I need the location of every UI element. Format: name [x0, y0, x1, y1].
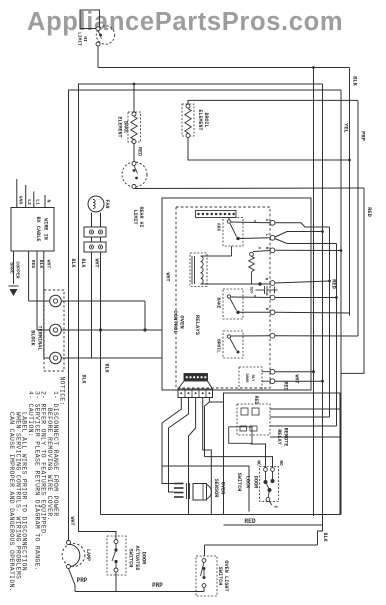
svg-text:OVEN: OVEN [220, 482, 226, 494]
svg-text:LIMIT: LIMIT [132, 209, 138, 224]
svg-text:RLY: RLY [250, 375, 254, 383]
svg-text:ELEMENT: ELEMENT [117, 116, 123, 137]
svg-text:BLK: BLK [104, 363, 110, 372]
switch contacts HI LIMIT [96, 27, 100, 31]
wire bottom horizontal [75, 591, 204, 593]
terminal L [270, 235, 275, 240]
sensor compartment divider [162, 466, 249, 512]
rly terminals [270, 369, 275, 374]
svg-text:0Z0: 0Z0 [249, 287, 253, 295]
door lock switch NC chain [264, 468, 268, 472]
fan connector 2 [84, 242, 106, 252]
supply wires below box [43, 251, 45, 358]
wire cell5 to module box [209, 398, 223, 403]
wire RED vertical x=364 from rear limit line [341, 188, 364, 373]
svg-text:NC: NC [256, 460, 261, 466]
svg-text:AUX: AUX [216, 223, 222, 232]
wire broil bottom to L2 bus [188, 138, 350, 161]
svg-text:RED: RED [366, 207, 372, 217]
wire vertical x=313.5 from bus1 [313, 68, 315, 517]
svg-text:TERMINAL: TERMINAL [37, 326, 43, 351]
fan leads [91, 213, 93, 228]
terminal 2 [50, 324, 62, 336]
wire bus1 BLK horizontal y=67.5 [98, 67, 350, 69]
oven control top connector strip [196, 211, 237, 218]
transformer DLB coil dashed box [190, 253, 207, 287]
wire vertical x=329.5 from aux A wire [329, 227, 331, 417]
junction box WIRE IN BX CABLE [11, 208, 54, 252]
resistor H branch [250, 252, 254, 256]
oven light switch dashed box [196, 556, 217, 596]
svg-text:C: C [273, 506, 278, 509]
wire y=545 from BLK jog [205, 544, 318, 546]
oven sensor probe [193, 484, 207, 501]
svg-text:LAMP: LAMP [85, 549, 91, 561]
wire feed to NO contact [205, 457, 273, 468]
svg-text:CAN CAUSE IMPROPER AND DANGERO: CAN CAUSE IMPROPER AND DANGEROUS OPERATI… [8, 391, 15, 592]
svg-text:RED: RED [30, 260, 36, 269]
svg-text:RED: RED [283, 381, 289, 390]
lamp bottom wire [69, 569, 76, 592]
svg-text:BROIL: BROIL [216, 339, 222, 353]
wire broil feed y=100.4 [188, 100, 358, 106]
svg-text:BX CABLE: BX CABLE [35, 217, 41, 242]
svg-text:WHT: WHT [69, 516, 75, 525]
svg-text:RED: RED [253, 395, 259, 404]
broil element terminals and resistor [186, 104, 190, 108]
remote relay dashed box [237, 404, 270, 435]
transformer leads [201, 255, 232, 257]
wire cell3 down to red band [189, 398, 196, 515]
oven control bottom connector strip [184, 374, 208, 382]
svg-text:WHT: WHT [294, 374, 300, 383]
svg-text:ELEMENT: ELEMENT [197, 109, 203, 130]
svg-text:YEL: YEL [342, 123, 348, 133]
svg-text:COPPER: COPPER [15, 261, 21, 278]
wire long horizontal y=188 to RED bus [134, 187, 364, 190]
terminal N [270, 281, 275, 286]
wire cell1 to oven sensor [162, 398, 181, 484]
fan connector 1 [84, 227, 106, 237]
wire broil to PRP bus [275, 335, 358, 337]
terminal H [270, 248, 275, 253]
supply leads above wire-in box [16, 179, 18, 207]
wire cell2 to oven sensor [169, 398, 189, 493]
svg-text:RELAYS: RELAYS [194, 315, 201, 336]
svg-text:BLK: BLK [38, 260, 44, 269]
terminal broil [270, 333, 275, 338]
connector flare [178, 381, 213, 398]
svg-text:RED: RED [331, 279, 337, 289]
svg-text:BARE: BARE [9, 262, 15, 274]
wire YEL vertical x=341 [340, 90, 342, 515]
wire bake to rear hi limit [133, 144, 135, 162]
wire PRP vertical x=358 from broil feed [357, 100, 359, 336]
thermostat HI LIMIT box [80, 10, 100, 29]
svg-text:SENSOR: SENSOR [213, 479, 219, 499]
svg-text:BLK: BLK [352, 76, 358, 86]
svg-text:PRP: PRP [152, 582, 163, 589]
svg-text:BLK: BLK [322, 532, 328, 541]
svg-text:AppliancePartsPros.com: AppliancePartsPros.com [27, 8, 343, 36]
wire terminal L fork upper [275, 232, 323, 238]
wires from supply to terminals [29, 300, 50, 302]
wire rly to bus b [275, 380, 323, 382]
oven lamp dashed circle [62, 544, 85, 567]
wire vertical x=336.5 from aux L wire [336, 244, 338, 427]
wire bus2 corner at (78.5,84) [79, 84, 323, 542]
wire NC chain up to remote relay [251, 443, 266, 468]
svg-text:ACTUATED: ACTUATED [134, 546, 140, 571]
door actuated switch dashed box [107, 536, 126, 575]
oven control inner dashed box [176, 207, 270, 388]
wire rly to bus a [275, 371, 314, 373]
remote relay wires right [270, 408, 340, 410]
oven control outer box [162, 198, 311, 390]
ground symbol bare copper [9, 285, 19, 287]
wire vertical x=322.5 from bus2 down to jog [322, 84, 324, 525]
svg-text:RED: RED [244, 518, 255, 525]
wire terminal L fork lower [275, 239, 337, 244]
HI LIMIT switch dashed circle [96, 26, 114, 44]
terminal 1 [50, 295, 62, 307]
svg-text:LIMIT: LIMIT [77, 32, 83, 46]
wire terminal H to bus [275, 249, 341, 251]
svg-text:DOOR: DOOR [253, 476, 259, 489]
svg-text:SWITCH: SWITCH [217, 567, 223, 586]
svg-text:BLOCK: BLOCK [30, 330, 36, 346]
svg-text:WHT: WHT [45, 260, 51, 269]
wire terminal A to bus [275, 223, 330, 227]
wire oven light switch down [203, 588, 205, 592]
svg-text:WIRE IN: WIRE IN [43, 218, 49, 240]
svg-text:WHT: WHT [94, 258, 100, 267]
svg-text:SWITCH: SWITCH [128, 549, 134, 568]
bake contact wires [231, 296, 270, 299]
svg-text:GND: GND [17, 196, 23, 205]
wire band lower y=525 [224, 524, 323, 526]
wire cell4 down to red band [203, 398, 212, 515]
wire HI LIMIT down to bus1 [97, 46, 99, 68]
wire x=145 jog [144, 301, 146, 330]
wire bake A to bus [275, 297, 337, 299]
svg-text:BLK: BLK [80, 258, 86, 267]
terminal B bake [270, 310, 275, 315]
wire oven light switch feed [204, 545, 206, 556]
svg-text:NO: NO [278, 460, 283, 466]
wire bake B to bus [275, 311, 350, 314]
wire cell5 down to door lock feed [205, 402, 210, 457]
svg-text:L2: L2 [26, 199, 32, 205]
svg-text:N: N [46, 200, 52, 203]
wire terminal N to bus [275, 281, 330, 283]
fan lead wires down [91, 252, 93, 358]
door lock switch dashed box [260, 467, 279, 502]
svg-text:HI: HI [82, 36, 88, 42]
thermostat REAR HI LIMIT dashed circle [122, 162, 147, 187]
wire red band upper y=514.5 [101, 514, 342, 516]
svg-text:BLK: BLK [70, 258, 76, 267]
door actuated switch wires [115, 572, 117, 592]
terminal block dashed box [44, 290, 64, 371]
relay RLY dashed box [239, 367, 262, 390]
remote relay solid sub box [229, 427, 252, 444]
wire BLK vertical right x=349.5 [349, 68, 351, 316]
svg-text:DOOR: DOOR [141, 552, 147, 565]
bake relay dashed box [223, 289, 243, 319]
bake element terminals and resistor [132, 112, 136, 116]
door lock module box [224, 393, 341, 515]
aux contact wires to terminals [231, 221, 270, 224]
svg-text:SWITCH: SWITCH [236, 473, 242, 492]
svg-text:FAN: FAN [104, 199, 110, 208]
terminal A bake [270, 295, 275, 300]
svg-text:BLK: BLK [81, 374, 87, 383]
terminal A [270, 220, 275, 225]
svg-text:PRP: PRP [77, 577, 88, 584]
fan motor circle [88, 196, 104, 212]
oven sensor plug [174, 483, 184, 485]
terminal 3 [50, 352, 62, 364]
svg-text:WHT: WHT [165, 272, 171, 281]
broil relay dashed box [223, 331, 243, 358]
wire terminal2 right [61, 329, 162, 331]
svg-text:RED: RED [137, 147, 143, 156]
svg-text:DOOR: DOOR [244, 373, 248, 383]
wire BLK jog bottom right [318, 525, 323, 545]
wire terminal3 right [61, 357, 162, 359]
svg-text:PRP: PRP [360, 131, 366, 141]
wire terminal1 right [61, 300, 145, 302]
wire bus3 corner at (68.5,90) [69, 90, 342, 541]
door lock switch NO chain [271, 468, 275, 472]
svg-text:BAKE: BAKE [216, 297, 222, 308]
aux relay dashed box [223, 218, 243, 247]
wire bake feed from bus2 [133, 84, 135, 113]
oven lamp filament arc [69, 544, 80, 567]
svg-text:L1: L1 [34, 199, 40, 205]
svg-text:CONTROL: CONTROL [172, 310, 179, 334]
